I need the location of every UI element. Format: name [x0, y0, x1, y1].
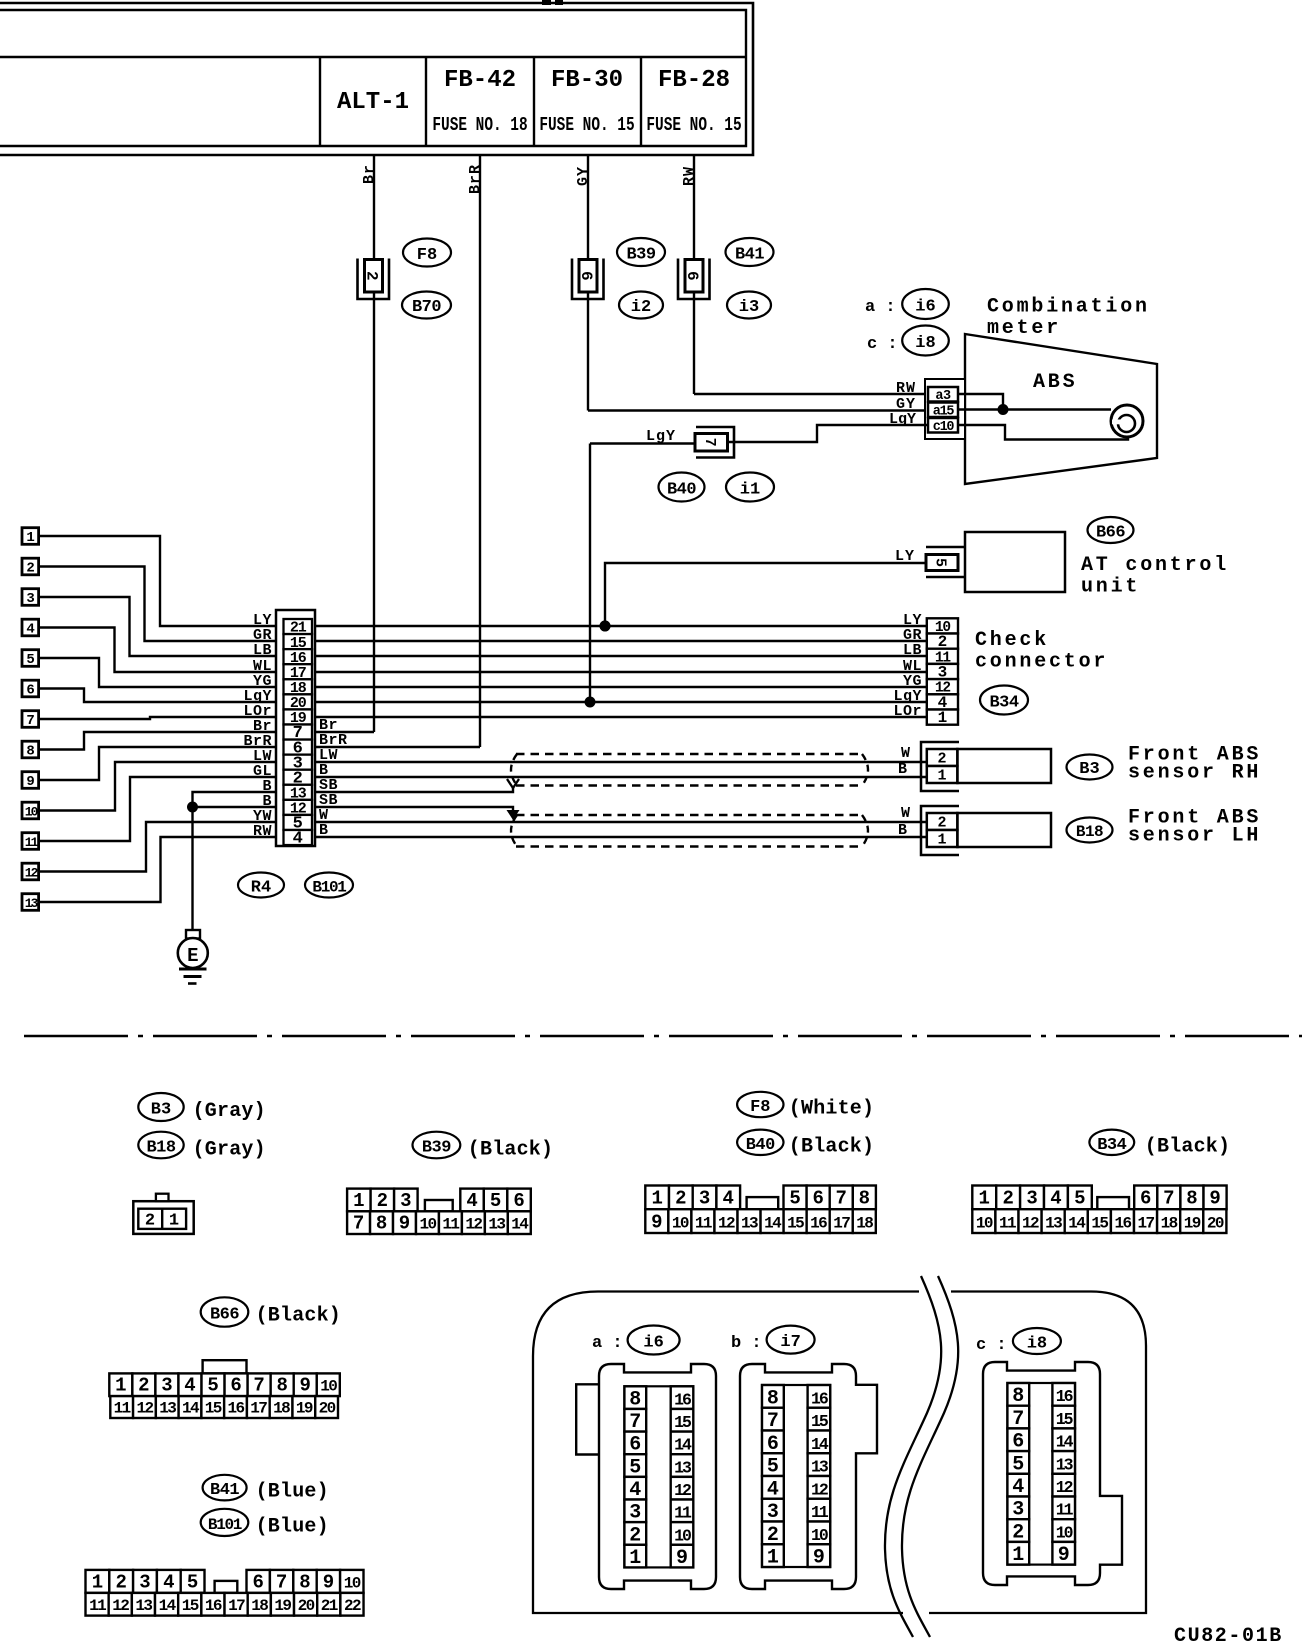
connector oval i6 legend: [628, 1326, 680, 1355]
pin 19 cell: [284, 709, 313, 724]
connector oval i3: [727, 292, 771, 319]
connector oval F8: [403, 239, 451, 267]
svg-text:11: 11: [442, 1216, 459, 1234]
wire from box 2 to pin 15: [39, 567, 278, 642]
connector oval B101: [305, 873, 353, 898]
sensor connector 2-1 legend: [133, 1201, 193, 1234]
svg-text:1: 1: [353, 1190, 364, 1212]
connector oval i6: [902, 289, 949, 319]
svg-text:B101: B101: [208, 1516, 242, 1534]
pin 4 cell: [284, 830, 313, 845]
connector oval B70: [402, 292, 451, 319]
svg-text:16: 16: [811, 1389, 828, 1408]
svg-text:4: 4: [26, 622, 34, 638]
svg-text:5: 5: [207, 1375, 218, 1397]
junction LY: [600, 621, 611, 632]
svg-text:B34: B34: [989, 694, 1018, 713]
svg-text:11: 11: [1056, 1501, 1074, 1520]
pin 13 cell: [284, 785, 313, 800]
svg-text:ABS: ABS: [1033, 371, 1077, 394]
svg-text:6: 6: [26, 683, 34, 699]
wire WL row right: [315, 671, 927, 673]
fuse/relay box inner border: [0, 10, 746, 146]
connector oval B34 legend: [1089, 1130, 1134, 1155]
svg-text:FB-28: FB-28: [658, 67, 730, 94]
sensor pin 2 B3: [927, 749, 958, 766]
wire from box 9 to pin 6: [39, 747, 278, 780]
svg-text:a :: a :: [865, 298, 896, 317]
svg-text:B39: B39: [422, 1139, 451, 1158]
connector face b (i7): [740, 1364, 877, 1589]
svg-text:15: 15: [205, 1400, 222, 1418]
svg-text:13: 13: [159, 1400, 176, 1418]
wire from box 6 to pin 20: [39, 689, 278, 703]
wire SB drain LH: [315, 807, 513, 812]
junction LgY: [585, 697, 596, 708]
svg-text:15: 15: [1056, 1410, 1074, 1429]
svg-text:2: 2: [1002, 1188, 1013, 1210]
svg-text:12: 12: [1056, 1478, 1073, 1497]
pin 17 cell: [284, 664, 313, 679]
svg-text:10: 10: [672, 1215, 689, 1233]
svg-text:c :: c :: [976, 1336, 1007, 1355]
check connector pin 12: [927, 679, 958, 694]
svg-text:18: 18: [273, 1400, 290, 1418]
svg-text:9: 9: [26, 774, 34, 790]
svg-text:11: 11: [89, 1597, 106, 1615]
svg-text:B3: B3: [151, 1101, 171, 1120]
svg-text:LB: LB: [903, 642, 922, 659]
break wave line 2: [902, 1276, 958, 1637]
svg-text:a :: a :: [592, 1334, 623, 1353]
connector B40 pin rows: [645, 1186, 669, 1210]
svg-text:9: 9: [651, 1212, 662, 1234]
check connector pin 2: [927, 634, 958, 649]
svg-text:3: 3: [1026, 1188, 1037, 1210]
svg-text:13: 13: [1045, 1215, 1062, 1233]
svg-text:20: 20: [319, 1400, 336, 1418]
check connector pin 1: [927, 710, 958, 725]
wire W row to sensor LH: [315, 821, 927, 823]
wire Br vertical from ALT-1: [373, 155, 375, 732]
svg-text:12: 12: [1022, 1215, 1039, 1233]
svg-text:17: 17: [1138, 1215, 1155, 1233]
svg-text:B34: B34: [1097, 1136, 1126, 1155]
svg-text:B40: B40: [667, 481, 696, 500]
svg-text:9: 9: [399, 1213, 410, 1235]
svg-text:10: 10: [320, 1378, 337, 1396]
svg-text:7: 7: [276, 1571, 287, 1593]
svg-text:B39: B39: [626, 246, 655, 265]
inline connector 6 on RW wire: [678, 259, 710, 300]
svg-text:18: 18: [251, 1597, 268, 1615]
svg-text:5: 5: [932, 558, 949, 567]
svg-text:12: 12: [811, 1480, 828, 1499]
AT connector pin 5: [926, 555, 958, 571]
svg-text:ALT-1: ALT-1: [337, 89, 409, 116]
connector B39 pin rows: [347, 1189, 371, 1212]
ground circle E: [178, 938, 208, 968]
wire LgY horizontal to connector 7: [590, 442, 696, 444]
connector oval B34: [980, 686, 1028, 715]
svg-text:(Blue): (Blue): [256, 1481, 329, 1504]
svg-text:B3: B3: [1079, 760, 1099, 779]
svg-text:12: 12: [112, 1597, 129, 1615]
connector oval B39 legend: [413, 1132, 461, 1159]
svg-text:Check: Check: [975, 629, 1049, 652]
svg-text:unit: unit: [1081, 576, 1140, 599]
page-link box 4: [22, 619, 39, 636]
svg-text:2: 2: [145, 1212, 155, 1231]
svg-text:2: 2: [675, 1188, 686, 1210]
svg-text:2: 2: [26, 561, 34, 577]
svg-text:FUSE NO. 15: FUSE NO. 15: [539, 115, 634, 136]
meter internal wire c10 to lamp: [958, 425, 1128, 440]
svg-text:20: 20: [1207, 1215, 1224, 1233]
svg-text:3: 3: [26, 591, 34, 607]
svg-text:GY: GY: [575, 166, 592, 186]
svg-text:9: 9: [813, 1547, 825, 1570]
svg-text:16: 16: [1056, 1387, 1073, 1406]
connector oval i2: [619, 292, 663, 319]
pin 5 cell: [284, 815, 313, 830]
pin 2 cell: [284, 770, 313, 785]
svg-text:6: 6: [577, 271, 595, 281]
svg-text:12: 12: [465, 1216, 482, 1234]
connector oval B40 legend: [737, 1130, 783, 1155]
svg-text:8: 8: [299, 1571, 310, 1593]
connector oval i8: [902, 326, 949, 356]
wire LgY row right: [315, 701, 927, 703]
svg-text:i3: i3: [739, 298, 759, 317]
meter connector block: [925, 379, 965, 439]
connector oval R4: [238, 873, 284, 898]
inline connector 2 on Br wire: [358, 259, 390, 300]
sensor bracket B3: [921, 742, 959, 791]
wire Br row right to vertical: [315, 731, 374, 733]
svg-text:19: 19: [274, 1597, 291, 1615]
svg-text:12: 12: [674, 1481, 691, 1500]
svg-text:1: 1: [26, 530, 34, 546]
svg-text:i8: i8: [915, 334, 935, 353]
svg-text:i6: i6: [643, 1334, 663, 1353]
svg-text:20: 20: [298, 1597, 315, 1615]
cell divider FB-28 left: [640, 57, 642, 146]
cell divider ALT-1 left: [319, 57, 321, 146]
wire SB drain RH: [315, 788, 513, 792]
svg-text:5: 5: [1074, 1188, 1085, 1210]
page-link box 1: [22, 528, 39, 545]
cut-off marks top edge: [542, 0, 551, 5]
wire LW row to sensor RH: [315, 761, 927, 763]
connector oval B18 legend: [138, 1132, 183, 1159]
svg-text:13: 13: [1056, 1455, 1074, 1474]
svg-text:(Gray): (Gray): [193, 1139, 266, 1162]
junction a3/a15: [998, 404, 1009, 415]
svg-text:3: 3: [400, 1190, 411, 1212]
page-link box 12: [22, 863, 39, 880]
wire from box 4 to pin 17: [39, 628, 278, 673]
cell divider FB-42 left: [425, 57, 427, 146]
svg-text:4: 4: [293, 830, 303, 849]
wire B pin 12 to ground junction: [193, 806, 278, 808]
svg-text:FUSE NO. 15: FUSE NO. 15: [646, 115, 741, 136]
wire YG row right: [315, 686, 927, 688]
fuse/relay box outer border: [0, 3, 753, 155]
svg-text:R4: R4: [251, 879, 271, 898]
connector B101 pin rows: [86, 1570, 110, 1593]
page-link box 11: [22, 833, 39, 850]
page-link box 2: [22, 558, 39, 575]
svg-text:14: 14: [764, 1215, 782, 1233]
svg-text:2: 2: [115, 1571, 126, 1593]
svg-text:6: 6: [513, 1190, 524, 1212]
shield box RH pair: [516, 753, 863, 755]
svg-text:LgY: LgY: [646, 428, 676, 445]
svg-text:b :: b :: [731, 1334, 762, 1353]
svg-text:B18: B18: [1076, 823, 1103, 841]
svg-text:9: 9: [1209, 1188, 1220, 1210]
pin 18 cell: [284, 679, 313, 694]
svg-text:meter: meter: [987, 317, 1061, 340]
svg-text:12: 12: [136, 1400, 153, 1418]
svg-text:6: 6: [812, 1188, 823, 1210]
svg-text:FUSE NO. 18: FUSE NO. 18: [432, 115, 527, 136]
svg-text:W: W: [901, 805, 910, 822]
svg-text:14: 14: [182, 1400, 200, 1418]
svg-text:14: 14: [511, 1216, 529, 1234]
svg-text:9: 9: [1058, 1544, 1070, 1567]
connector face a (i6): [576, 1364, 716, 1589]
svg-text:17: 17: [250, 1400, 267, 1418]
svg-text:F8: F8: [750, 1098, 770, 1117]
connector oval B41: [726, 238, 774, 266]
svg-text:1: 1: [92, 1571, 103, 1593]
svg-text:(Black): (Black): [468, 1139, 553, 1162]
svg-text:5: 5: [490, 1190, 501, 1212]
svg-text:B66: B66: [210, 1306, 239, 1325]
connector oval i1: [726, 473, 774, 502]
pin 12 cell: [284, 800, 313, 815]
connector oval B41 legend: [203, 1475, 247, 1501]
svg-text:5: 5: [187, 1571, 198, 1593]
inline connector 6 on GY wire: [572, 259, 604, 300]
wire B pin 13 to ground junction: [193, 792, 278, 807]
connector oval B66: [1088, 517, 1134, 543]
svg-text:3: 3: [161, 1375, 172, 1397]
ground junction dot: [187, 802, 198, 813]
svg-text:10: 10: [976, 1215, 993, 1233]
wire from box 5 to pin 18: [39, 658, 278, 687]
svg-text:B101: B101: [312, 879, 346, 897]
fuse box cell row top line: [0, 56, 746, 58]
sensor pin 1 B3: [927, 766, 958, 783]
wire from box 8 to pin 7: [39, 732, 278, 750]
svg-text:22: 22: [344, 1597, 361, 1615]
wire LgY from connector 7 to meter c10: [727, 425, 927, 442]
svg-text:16: 16: [810, 1215, 827, 1233]
svg-text:AT control: AT control: [1081, 554, 1229, 577]
svg-text:16: 16: [205, 1597, 222, 1615]
svg-text:i8: i8: [1027, 1335, 1047, 1354]
svg-text:4: 4: [163, 1571, 174, 1593]
svg-text:Br: Br: [361, 164, 378, 184]
wire RW vertical from FB-28: [693, 155, 695, 394]
connector oval B40: [659, 473, 705, 502]
svg-text:13: 13: [674, 1458, 692, 1477]
svg-text:11: 11: [674, 1504, 692, 1523]
svg-text:FB-42: FB-42: [444, 67, 516, 94]
svg-text:4: 4: [1050, 1188, 1061, 1210]
svg-text:19: 19: [1184, 1215, 1201, 1233]
sensor pin 2 B18: [927, 813, 958, 830]
svg-text:c10: c10: [933, 420, 955, 435]
svg-text:E: E: [187, 945, 198, 967]
svg-text:10: 10: [1056, 1523, 1073, 1542]
svg-text:connector: connector: [975, 651, 1108, 674]
inline connector 7 on LgY wire: [696, 427, 734, 458]
wire BrR vertical from FB-42: [479, 155, 481, 747]
page-link box 10: [22, 802, 39, 819]
svg-text:8: 8: [859, 1188, 870, 1210]
svg-text:Combination: Combination: [987, 296, 1150, 319]
combination meter connector housing: [533, 1292, 919, 1614]
wire LY row right: [315, 625, 927, 627]
svg-text:(Blue): (Blue): [256, 1516, 329, 1539]
svg-text:8: 8: [376, 1213, 387, 1235]
wire from box 11 to pin 2: [39, 777, 278, 841]
pin 20 cell: [284, 694, 313, 709]
svg-text:3: 3: [139, 1571, 150, 1593]
svg-text:6: 6: [252, 1571, 263, 1593]
pin 16 cell: [284, 649, 313, 664]
wire BrR row right to vertical: [315, 746, 480, 748]
ground wire vertical: [191, 807, 193, 931]
svg-text:1: 1: [115, 1375, 126, 1397]
svg-text:4: 4: [184, 1375, 195, 1397]
svg-text:7: 7: [836, 1188, 847, 1210]
page-link box 8: [22, 741, 39, 758]
svg-text:6: 6: [1140, 1188, 1151, 1210]
svg-text:11: 11: [695, 1215, 712, 1233]
svg-text:15: 15: [674, 1413, 692, 1432]
wire LY from AT unit: [605, 563, 926, 626]
svg-text:B66: B66: [1096, 524, 1125, 543]
sensor body B3: [957, 749, 1051, 783]
AT connector bracket: [926, 546, 965, 549]
wire from box 1 to pin 21: [39, 536, 278, 626]
junction LY-AT: [600, 621, 611, 632]
svg-text:1: 1: [767, 1547, 779, 1570]
combination meter body (trapezoid): [965, 334, 1157, 484]
svg-text:9: 9: [300, 1375, 311, 1397]
svg-text:14: 14: [811, 1435, 829, 1454]
page-link box 6: [22, 680, 39, 697]
svg-text:16: 16: [1114, 1215, 1131, 1233]
svg-text:4: 4: [466, 1190, 477, 1212]
svg-text:21: 21: [321, 1597, 338, 1615]
check connector pin 11: [927, 649, 958, 664]
svg-text:13: 13: [741, 1215, 758, 1233]
wire B row to sensor RH: [315, 776, 927, 778]
wire GY vertical from FB-30: [587, 155, 589, 411]
svg-text:4: 4: [723, 1188, 734, 1210]
wire GR row right: [315, 640, 927, 642]
ground bars: [179, 968, 207, 971]
page-link box 13: [22, 894, 39, 911]
svg-text:19: 19: [296, 1400, 313, 1418]
svg-text:10: 10: [419, 1216, 436, 1234]
svg-text:11: 11: [811, 1503, 829, 1522]
svg-text:B18: B18: [146, 1139, 175, 1158]
svg-text:RW: RW: [681, 166, 698, 186]
svg-text:i6: i6: [915, 298, 935, 317]
svg-text:16: 16: [228, 1400, 245, 1418]
svg-text:17: 17: [833, 1215, 850, 1233]
svg-text:6: 6: [683, 271, 701, 281]
svg-text:15: 15: [1091, 1215, 1108, 1233]
svg-text:CU82-01B: CU82-01B: [1174, 1625, 1283, 1644]
svg-text:10: 10: [344, 1574, 361, 1592]
svg-text:6: 6: [230, 1375, 241, 1397]
svg-text:B41: B41: [210, 1481, 239, 1500]
svg-text:15: 15: [787, 1215, 804, 1233]
sensor body B18: [957, 813, 1051, 847]
page-link box 9: [22, 772, 39, 789]
connector B34 pin rows: [972, 1186, 996, 1210]
connector oval B3: [1067, 755, 1113, 780]
wire LB row right: [315, 655, 927, 657]
svg-text:W: W: [901, 745, 910, 762]
svg-text:i7: i7: [780, 1333, 800, 1352]
wire from box 12 to pin 5: [39, 822, 278, 872]
svg-text:14: 14: [1056, 1433, 1074, 1452]
svg-text:16: 16: [674, 1390, 691, 1409]
sensor pin 1 B18: [927, 830, 958, 847]
AT control unit body: [965, 532, 1065, 592]
svg-text:14: 14: [159, 1597, 177, 1615]
meter internal wire a3: [958, 394, 1003, 410]
wire RW horizontal to meter a3: [694, 393, 927, 395]
ABS warning lamp: [1111, 405, 1143, 437]
check connector pin 4: [927, 694, 958, 709]
connector oval B18: [1067, 818, 1113, 843]
svg-text:7: 7: [26, 713, 34, 729]
svg-text:F8: F8: [417, 246, 437, 265]
svg-text:11: 11: [114, 1400, 131, 1418]
meter internal wire a15 to lamp: [958, 408, 1111, 410]
check connector pin 10: [927, 618, 958, 633]
svg-text:B70: B70: [412, 298, 441, 317]
connector face c (i8): [983, 1362, 1122, 1585]
sensor bracket B18: [921, 806, 959, 855]
svg-text:(Black): (Black): [256, 1305, 341, 1328]
svg-text:1: 1: [169, 1212, 179, 1231]
svg-text:1: 1: [629, 1547, 641, 1570]
svg-text:(Gray): (Gray): [193, 1100, 266, 1123]
svg-text:sensor RH: sensor RH: [1128, 762, 1261, 785]
svg-text:(White): (White): [789, 1098, 874, 1121]
svg-text:2: 2: [138, 1375, 149, 1397]
svg-text:18: 18: [856, 1215, 873, 1233]
svg-text:sensor LH: sensor LH: [1128, 825, 1261, 848]
svg-text:5: 5: [26, 652, 34, 668]
wire GY horizontal to meter a15: [588, 409, 927, 411]
wire B row to sensor LH: [315, 836, 927, 838]
connector R4/B101 outer body: [276, 610, 315, 846]
svg-text:i2: i2: [631, 298, 651, 317]
svg-text:c :: c :: [867, 335, 898, 354]
